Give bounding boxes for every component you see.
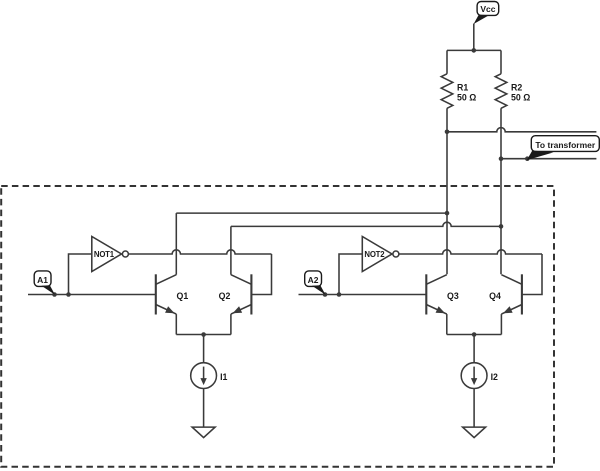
svg-text:Q1: Q1	[177, 291, 189, 301]
svg-text:NOT2: NOT2	[364, 250, 385, 259]
svg-text:R2: R2	[511, 82, 522, 92]
svg-text:NOT1: NOT1	[94, 250, 115, 259]
svg-text:50 Ω: 50 Ω	[457, 92, 476, 102]
svg-text:Q3: Q3	[447, 291, 459, 301]
svg-text:Q4: Q4	[489, 291, 501, 301]
svg-text:A2: A2	[308, 275, 319, 285]
svg-text:I1: I1	[220, 372, 227, 382]
svg-text:Q2: Q2	[219, 291, 231, 301]
svg-text:To transformer: To transformer	[535, 140, 596, 150]
svg-text:I2: I2	[491, 372, 498, 382]
svg-text:R1: R1	[457, 82, 468, 92]
svg-text:50 Ω: 50 Ω	[511, 92, 530, 102]
svg-text:A1: A1	[37, 275, 48, 285]
svg-text:Vcc: Vcc	[480, 4, 495, 14]
